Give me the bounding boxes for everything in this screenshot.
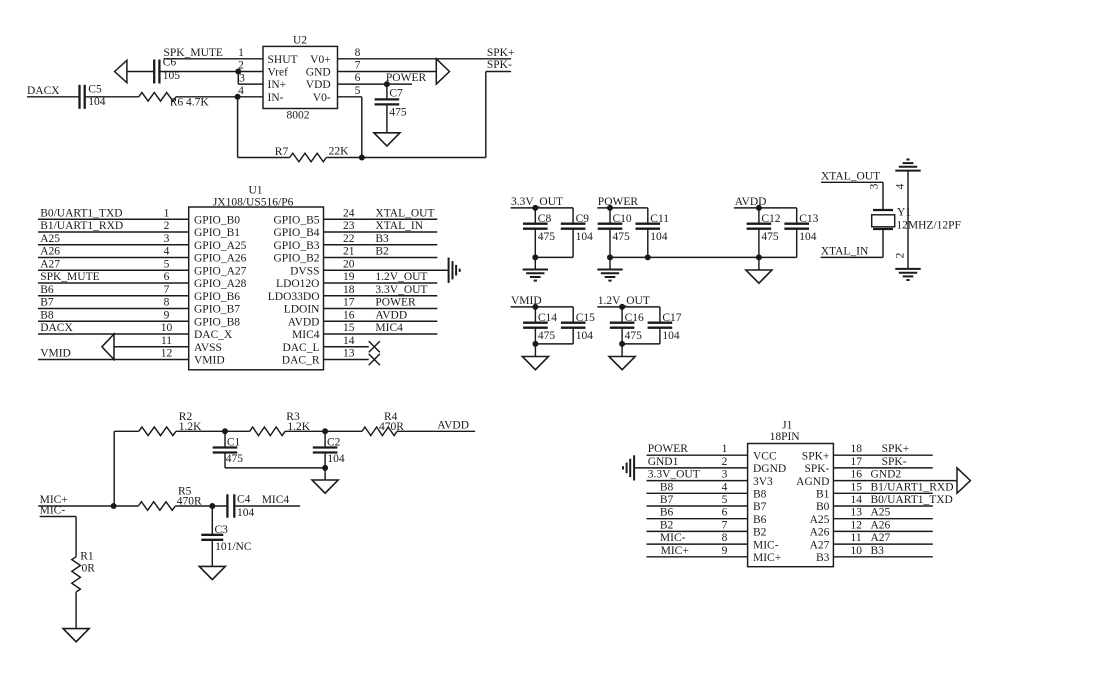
svg-text:MIC4: MIC4 <box>292 329 320 341</box>
resistor R4 <box>362 411 404 435</box>
J1 pin 17 wire, net SPK- <box>833 456 932 468</box>
svg-text:6: 6 <box>722 507 728 519</box>
capacitor C11 <box>636 208 670 258</box>
svg-text:7: 7 <box>722 519 728 531</box>
svg-text:12MHZ/12PF: 12MHZ/12PF <box>896 220 961 232</box>
J1 left pin names <box>753 450 786 564</box>
svg-text:POWER: POWER <box>386 72 427 84</box>
wire R3 to R4 <box>285 430 362 432</box>
svg-text:17: 17 <box>851 456 863 468</box>
svg-text:AGND: AGND <box>796 476 829 488</box>
svg-text:B3: B3 <box>375 233 389 245</box>
svg-text:GPIO_B6: GPIO_B6 <box>194 291 240 303</box>
svg-text:C9: C9 <box>576 213 590 225</box>
U1 pin 19 wire, net 1.2V_OUT <box>324 271 438 283</box>
svg-text:104: 104 <box>576 231 594 243</box>
svg-text:A27: A27 <box>40 258 60 270</box>
svg-text:20: 20 <box>343 258 355 270</box>
capacitor C4 <box>227 494 254 520</box>
svg-text:9: 9 <box>164 309 170 321</box>
capacitor C13 <box>784 208 818 258</box>
svg-text:5: 5 <box>164 258 170 270</box>
J1 pin 8 wire, net MIC- <box>647 532 748 544</box>
svg-text:6: 6 <box>355 72 361 84</box>
svg-text:12: 12 <box>161 348 173 360</box>
svg-text:C6: C6 <box>163 57 177 69</box>
junction at C2 bottom <box>322 465 328 471</box>
capacitor C1 <box>213 431 244 468</box>
svg-text:15: 15 <box>343 322 355 334</box>
svg-text:POWER: POWER <box>375 297 416 309</box>
svg-text:2: 2 <box>722 456 728 468</box>
svg-text:C5: C5 <box>88 84 102 96</box>
J1 pin 18 wire, net SPK+ <box>833 443 932 455</box>
ground below C12 <box>746 257 772 283</box>
svg-text:101/NC: 101/NC <box>215 541 252 553</box>
svg-text:C8: C8 <box>538 213 552 225</box>
net VMID label and top wire <box>511 295 574 307</box>
svg-text:104: 104 <box>799 231 817 243</box>
junction 3.3V_OUT bottom <box>532 254 538 260</box>
J1 pin 16 wire, net GND2 <box>833 469 956 481</box>
junction at U2 pin 4 <box>235 94 241 100</box>
wire POWER bank to AVDD bank (bottom) <box>648 256 759 258</box>
net XTAL_IN label and wire <box>821 245 883 257</box>
J1 pin 12 wire, net A26 <box>833 519 932 531</box>
svg-text:24: 24 <box>343 207 355 219</box>
svg-text:A27: A27 <box>871 532 891 544</box>
bottom wire of AVDD bank <box>759 256 797 258</box>
svg-text:AVDD: AVDD <box>288 316 320 328</box>
svg-text:SPK_MUTE: SPK_MUTE <box>40 271 99 283</box>
svg-text:12: 12 <box>851 519 863 531</box>
svg-text:104: 104 <box>576 330 594 342</box>
net AVDD label and top wire <box>734 196 797 208</box>
junction at POWER node <box>384 81 390 87</box>
junction at C1 top <box>222 428 228 434</box>
ground below C14 <box>522 344 548 370</box>
wire SPK- down to R7 row <box>485 72 487 158</box>
earth ground above crystal case <box>895 170 920 172</box>
svg-text:8002: 8002 <box>287 110 310 122</box>
junction VMID top <box>532 304 538 310</box>
svg-text:GND1: GND1 <box>648 456 679 468</box>
IC U2 pin names <box>268 54 331 104</box>
svg-text:104: 104 <box>88 96 106 108</box>
net MIC+ label and wire <box>38 494 138 506</box>
bottom wire of VMID bank <box>535 343 573 345</box>
svg-text:U2: U2 <box>293 34 307 46</box>
U1 pin 3 wire, net A25 <box>38 233 189 245</box>
wire U2 pin4 down to R7 <box>237 97 239 158</box>
svg-text:C10: C10 <box>613 213 632 225</box>
U1 pin 15 wire, net MIC4 <box>324 322 438 334</box>
junction MIC+ to R2 branch <box>111 503 117 509</box>
svg-text:DACX: DACX <box>40 322 73 334</box>
ground below C3 <box>199 566 225 579</box>
svg-text:GPIO_B5: GPIO_B5 <box>273 214 319 226</box>
svg-text:DGND: DGND <box>753 463 786 475</box>
svg-text:B8: B8 <box>753 489 767 501</box>
svg-text:18: 18 <box>343 284 355 296</box>
net POWER label and top wire <box>597 196 648 208</box>
capacitor C10 <box>598 208 632 258</box>
J1 pin 1 wire, net POWER <box>647 443 748 455</box>
wire R6 to U2 pin 4 <box>176 85 263 97</box>
svg-text:21: 21 <box>343 246 355 258</box>
U1 pin 8 wire, net B7 <box>38 297 189 309</box>
U1 pin 23 wire, net XTAL_IN <box>324 220 438 232</box>
net SPK+ wire from U2 pin 8 <box>338 47 515 59</box>
wire R7 row left segment <box>238 157 290 159</box>
U1 pin 7 wire, net B6 <box>38 284 189 296</box>
svg-text:B8: B8 <box>660 481 674 493</box>
svg-text:3: 3 <box>164 233 170 245</box>
svg-text:POWER: POWER <box>598 196 639 208</box>
svg-text:MIC4: MIC4 <box>375 322 403 334</box>
svg-text:3.3V_OUT: 3.3V_OUT <box>648 469 700 481</box>
svg-text:B7: B7 <box>753 501 767 513</box>
svg-text:POWER: POWER <box>648 443 689 455</box>
junction 1.2V_OUT bottom <box>619 341 625 347</box>
svg-text:SPK+: SPK+ <box>487 47 515 59</box>
wire C5 to R6 <box>85 96 139 98</box>
junction AVDD top <box>756 205 762 211</box>
svg-text:11: 11 <box>161 335 172 347</box>
connector J1 box (18PIN) <box>748 444 834 567</box>
svg-text:AVDD: AVDD <box>437 419 469 431</box>
svg-text:MIC+: MIC+ <box>753 552 781 564</box>
wire corner left of R2 <box>114 431 139 506</box>
net 1.2V_OUT label and top wire <box>597 295 660 307</box>
svg-text:22K: 22K <box>329 146 350 158</box>
svg-text:XTAL_OUT: XTAL_OUT <box>821 170 880 182</box>
capacitor C6 <box>154 57 180 84</box>
U1 pin 17 wire, net POWER <box>324 297 438 309</box>
svg-text:XTAL_OUT: XTAL_OUT <box>375 207 434 219</box>
net SPK_MUTE wire to U2 pin 1 <box>164 47 264 59</box>
U1 pin 6 wire, net SPK_MUTE <box>38 271 189 283</box>
ground below C7 <box>374 133 400 146</box>
svg-text:475: 475 <box>761 231 779 243</box>
svg-text:3: 3 <box>869 183 881 189</box>
svg-text:SPK-: SPK- <box>882 456 907 468</box>
U1 pin 1 wire, net B0/UART1_TXD <box>38 207 189 219</box>
resistor R3 <box>250 411 311 435</box>
svg-text:B2: B2 <box>660 519 674 531</box>
junction VMID bottom <box>532 341 538 347</box>
svg-text:16: 16 <box>851 469 863 481</box>
net 3.3V_OUT label and top wire <box>511 196 573 208</box>
svg-text:18PIN: 18PIN <box>770 431 801 443</box>
svg-text:DAC_R: DAC_R <box>282 355 320 367</box>
svg-text:5: 5 <box>355 85 361 97</box>
crystal Y1 symbol <box>872 210 895 229</box>
svg-text:4: 4 <box>722 481 728 493</box>
svg-text:C3: C3 <box>215 524 229 536</box>
junction 1.2V_OUT top <box>619 304 625 310</box>
svg-text:14: 14 <box>343 335 355 347</box>
svg-text:6: 6 <box>164 271 170 283</box>
svg-text:17: 17 <box>343 297 355 309</box>
no-connect X on U1 pin 13 <box>369 354 380 365</box>
svg-text:J1: J1 <box>782 419 792 431</box>
svg-text:Vref: Vref <box>268 67 289 79</box>
svg-text:GPIO_A27: GPIO_A27 <box>194 265 247 277</box>
svg-text:R7: R7 <box>275 146 289 158</box>
svg-text:GPIO_B4: GPIO_B4 <box>273 227 319 239</box>
junction V0- at R7 row <box>359 155 365 161</box>
svg-text:C4: C4 <box>237 494 251 506</box>
svg-text:C13: C13 <box>799 213 818 225</box>
svg-text:3V3: 3V3 <box>753 476 773 488</box>
bottom wire of 3.3V_OUT bank <box>535 256 573 258</box>
svg-text:V0-: V0- <box>313 92 331 104</box>
svg-text:MIC4: MIC4 <box>262 494 290 506</box>
svg-text:3: 3 <box>239 73 245 85</box>
svg-text:3: 3 <box>722 469 728 481</box>
off-page arrow right of J1 (GND2) <box>957 468 970 493</box>
U1 pin 13 no-connect wire <box>324 348 369 360</box>
ground symbol at U1 DVSS pin 20 <box>448 258 450 283</box>
svg-text:C14: C14 <box>538 312 557 324</box>
net XTAL_OUT label and wire <box>821 170 883 182</box>
svg-text:C11: C11 <box>650 213 669 225</box>
capacitor C17 <box>648 307 682 344</box>
wire U2 pin 7 GND to arrow <box>338 60 437 72</box>
wire R7 row right segment <box>326 157 486 159</box>
capacitor C12 <box>747 208 781 258</box>
off-page arrow into C6 (left) <box>115 60 127 82</box>
wire R5 to C4 <box>175 505 227 507</box>
svg-text:SHUT: SHUT <box>268 54 298 66</box>
IC U1 left pin names <box>194 214 247 366</box>
svg-text:MIC+: MIC+ <box>661 545 689 557</box>
svg-text:DVSS: DVSS <box>290 265 319 277</box>
U1 pin 9 wire, net B8 <box>38 309 189 321</box>
junction at C2 top <box>322 428 328 434</box>
svg-text:475: 475 <box>625 330 643 342</box>
svg-text:GPIO_A28: GPIO_A28 <box>194 278 247 290</box>
svg-text:15: 15 <box>851 481 863 493</box>
U1 pin 21 wire, net B2 <box>324 246 438 258</box>
svg-text:Y1: Y1 <box>897 207 911 219</box>
resistor R5 <box>138 486 202 511</box>
svg-text:VMID: VMID <box>40 348 71 360</box>
svg-text:13: 13 <box>851 507 863 519</box>
IC U1 box (JX108/US516/P6) <box>189 207 324 370</box>
J1 pin 15 wire, net B1/UART1_RXD <box>833 481 953 493</box>
J1 pin 7 wire, net B2 <box>647 519 748 531</box>
svg-text:GPIO_B8: GPIO_B8 <box>194 316 240 328</box>
svg-text:2: 2 <box>164 220 170 232</box>
svg-text:7: 7 <box>164 284 170 296</box>
svg-text:AVDD: AVDD <box>735 196 767 208</box>
junction at C3/C4 node <box>209 503 215 509</box>
svg-text:10: 10 <box>851 545 863 557</box>
svg-text:VMID: VMID <box>194 355 225 367</box>
svg-text:U1: U1 <box>248 184 262 196</box>
svg-text:475: 475 <box>538 330 556 342</box>
net MIC4 wire right of C4 <box>234 494 300 506</box>
svg-text:11: 11 <box>851 532 862 544</box>
U1 pin 14 no-connect wire <box>324 335 369 347</box>
bottom wire C1 to C2 <box>225 467 325 469</box>
capacitor C2 <box>313 431 345 468</box>
svg-text:IN+: IN+ <box>268 79 287 91</box>
svg-text:GND: GND <box>306 67 331 79</box>
net DACX label and wire <box>27 85 80 97</box>
svg-text:2: 2 <box>895 252 907 258</box>
svg-text:VCC: VCC <box>753 450 777 462</box>
J1 pin 3 wire, net 3.3V_OUT <box>647 469 748 481</box>
svg-text:LDO12O: LDO12O <box>276 278 319 290</box>
U1 pin 4 wire, net A26 <box>38 246 189 258</box>
svg-text:23: 23 <box>343 220 355 232</box>
earth ground below crystal case <box>895 268 920 270</box>
svg-text:GPIO_B1: GPIO_B1 <box>194 227 240 239</box>
svg-text:SPK+: SPK+ <box>802 450 830 462</box>
capacitor C3 <box>201 506 252 566</box>
svg-text:10: 10 <box>161 322 173 334</box>
capacitor C7 <box>375 84 407 133</box>
svg-text:XTAL_IN: XTAL_IN <box>375 220 423 232</box>
capacitor C8 <box>523 208 555 258</box>
svg-text:GPIO_A25: GPIO_A25 <box>194 240 247 252</box>
svg-text:A25: A25 <box>810 514 830 526</box>
U1 pin 10 wire, net DACX <box>38 322 189 334</box>
svg-text:16: 16 <box>343 309 355 321</box>
junction at U2 pin 2 <box>235 69 241 75</box>
J1 pin 10 wire, net B3 <box>833 545 932 557</box>
svg-text:R1: R1 <box>80 551 94 563</box>
U1 pin 16 wire, net AVDD <box>324 309 438 321</box>
svg-text:13: 13 <box>343 348 355 360</box>
svg-text:104: 104 <box>237 507 255 519</box>
J1 pin 13 wire, net A25 <box>833 507 932 519</box>
junction POWER top <box>607 205 613 211</box>
capacitor C15 <box>561 307 595 344</box>
svg-text:A27: A27 <box>810 539 830 551</box>
svg-text:MIC-: MIC- <box>40 505 66 517</box>
svg-text:8: 8 <box>722 532 728 544</box>
J1 pin 14 wire, net B0/UART1_TXD <box>833 494 952 506</box>
svg-text:B1/UART1_RXD: B1/UART1_RXD <box>40 220 123 232</box>
net SPK- stub wire <box>486 59 512 71</box>
svg-text:22: 22 <box>343 233 355 245</box>
svg-text:4: 4 <box>895 183 907 189</box>
svg-text:JX108/US516/P6: JX108/US516/P6 <box>213 197 294 209</box>
svg-text:XTAL_IN: XTAL_IN <box>821 245 869 257</box>
J1 pin 9 wire, net MIC+ <box>647 545 748 557</box>
svg-text:GPIO_B2: GPIO_B2 <box>273 253 319 265</box>
wire U2 pin 5 V0- <box>338 85 362 158</box>
svg-text:A26: A26 <box>40 246 60 258</box>
svg-text:LDO33DO: LDO33DO <box>268 291 320 303</box>
svg-text:GPIO_B7: GPIO_B7 <box>194 304 240 316</box>
svg-text:104: 104 <box>662 330 680 342</box>
svg-text:V0+: V0+ <box>310 54 331 66</box>
svg-text:5: 5 <box>722 494 728 506</box>
svg-text:8: 8 <box>355 47 361 59</box>
svg-text:DAC_X: DAC_X <box>194 329 233 341</box>
svg-text:B2: B2 <box>375 246 389 258</box>
net MIC- label and wire <box>40 505 77 557</box>
svg-text:475: 475 <box>226 453 244 465</box>
resistor R7 <box>275 146 349 162</box>
svg-text:VDD: VDD <box>306 79 331 91</box>
svg-text:SPK-: SPK- <box>804 463 829 475</box>
J1 pin 2 wire, net GND1 <box>634 456 748 468</box>
IC U1 right pin names <box>268 214 320 366</box>
svg-text:C2: C2 <box>327 437 341 449</box>
earth ground below C8 <box>523 257 548 280</box>
U1 pin 11 AVSS wire from arrow <box>114 335 189 347</box>
svg-text:8: 8 <box>164 297 170 309</box>
svg-text:A26: A26 <box>871 519 891 531</box>
resistor R6 <box>139 93 210 109</box>
svg-text:B6: B6 <box>40 284 54 296</box>
wire R2 to R3 <box>176 430 250 432</box>
svg-text:1: 1 <box>238 47 244 59</box>
svg-text:SPK-: SPK- <box>487 59 512 71</box>
svg-text:9: 9 <box>722 545 728 557</box>
svg-text:C1: C1 <box>227 437 241 449</box>
svg-text:C7: C7 <box>389 88 403 100</box>
svg-text:DACX: DACX <box>27 85 60 97</box>
earth ground below C10 <box>597 257 622 280</box>
svg-text:7: 7 <box>355 60 361 72</box>
svg-text:B7: B7 <box>660 494 674 506</box>
svg-text:SPK+: SPK+ <box>882 443 910 455</box>
U1 pin 12 wire, net VMID <box>38 348 189 360</box>
svg-text:475: 475 <box>389 107 407 119</box>
svg-text:B1/UART1_RXD: B1/UART1_RXD <box>871 481 954 493</box>
svg-text:475: 475 <box>613 231 631 243</box>
svg-text:1.2V_OUT: 1.2V_OUT <box>375 271 427 283</box>
junction at C11 bottom <box>645 254 651 260</box>
svg-text:MIC-: MIC- <box>753 539 779 551</box>
svg-text:C16: C16 <box>625 312 644 324</box>
svg-text:B6: B6 <box>753 514 767 526</box>
J1 pin 11 wire, net A27 <box>833 532 932 544</box>
svg-text:B1: B1 <box>816 489 830 501</box>
svg-text:B8: B8 <box>40 309 54 321</box>
ground below C2 <box>312 468 338 493</box>
svg-text:1: 1 <box>164 207 170 219</box>
svg-text:C15: C15 <box>576 312 595 324</box>
svg-text:19: 19 <box>343 271 355 283</box>
capacitor C5 <box>80 84 106 109</box>
svg-text:IN-: IN- <box>268 92 284 104</box>
svg-text:B7: B7 <box>40 297 54 309</box>
svg-text:GPIO_A26: GPIO_A26 <box>194 253 247 265</box>
J1 pin 4 wire, net B8 <box>647 481 748 493</box>
net AVDD wire right of R4 <box>397 419 475 431</box>
svg-text:A26: A26 <box>810 527 830 539</box>
off-page arrow SPK (right) <box>436 59 449 84</box>
wire XTAL_OUT down to crystal <box>882 182 884 210</box>
svg-text:A25: A25 <box>871 507 891 519</box>
svg-text:C17: C17 <box>662 312 681 324</box>
svg-text:GPIO_B0: GPIO_B0 <box>194 214 240 226</box>
svg-text:1: 1 <box>722 443 728 455</box>
svg-text:B3: B3 <box>871 545 885 557</box>
wire C6 to U2 pin 2 <box>159 60 263 72</box>
svg-text:B3: B3 <box>816 552 830 564</box>
bottom wire of 1.2V_OUT bank <box>622 343 660 345</box>
svg-text:AVSS: AVSS <box>194 342 222 354</box>
